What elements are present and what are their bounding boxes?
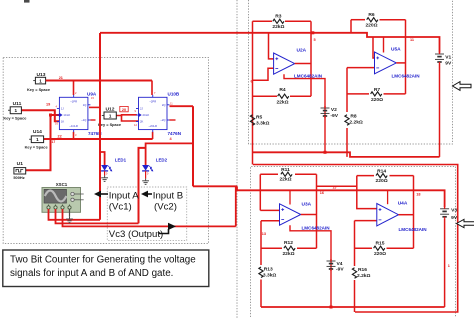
wire U3A power stub [289,190,291,204]
svg-text:Key = Space: Key = Space [98,122,122,127]
wire Vc3 output line [63,209,236,226]
svg-text:1: 1 [448,264,450,268]
svg-text:1CLK: 1CLK [63,113,70,117]
svg-text:21: 21 [59,76,63,80]
svg-text:LMC6482AIN: LMC6482AIN [294,73,323,78]
svg-text:R15: R15 [376,240,385,246]
wire scope ground pin [66,209,73,223]
wire Vc2 signal line into stage [193,186,445,207]
resistor R4 [278,94,289,98]
svg-text:1Q: 1Q [83,103,87,107]
svg-text:17: 17 [52,140,56,144]
wire U5A positive supply [383,37,385,53]
resistor R7 [371,92,382,96]
svg-text:U2A: U2A [297,48,307,54]
svg-text:15: 15 [333,186,337,190]
resistor R6 [367,18,378,22]
svg-text:6: 6 [251,80,253,84]
resistor R11 [281,172,292,176]
wire R4 feedback [253,95,312,97]
op-amp U5A [375,52,397,74]
svg-text:19: 19 [46,103,50,107]
resistor R5 [250,115,254,126]
svg-text:500Hz: 500Hz [13,175,24,180]
svg-text:LMC6482AIN: LMC6482AIN [392,73,421,78]
wire U3A output [301,214,317,216]
resistor R12 [284,246,295,250]
sheet page border (dashed) [236,0,238,318]
svg-text:Input A: Input A [109,190,139,201]
svg-text:3.3kΩ: 3.3kΩ [263,273,277,279]
svg-text:U14: U14 [33,129,42,135]
switch U13 [33,77,48,84]
svg-text:2K: 2K [140,120,143,124]
svg-text:20: 20 [122,108,126,112]
wire net 19 from U11 [21,110,59,121]
wire U3A inverting input [261,221,280,307]
svg-text:~2PR: ~2PR [149,99,156,103]
svg-text:R11: R11 [281,167,290,173]
svg-text:11: 11 [410,38,414,42]
svg-text:R12: R12 [284,240,293,246]
label callout dashed box [107,187,186,240]
svg-text:V4: V4 [337,261,343,267]
switch U12 [102,115,104,117]
arrow Input B [141,191,152,198]
battery V3 [440,207,449,307]
cropped symbol at top-left [24,0,30,3]
svg-text:R4: R4 [279,87,286,93]
svg-text:Two Bit Counter for Generating: Two Bit Counter for Generating the volta… [10,255,196,266]
wire U2A output [295,63,311,65]
op-amp U3A [280,204,301,225]
svg-text:22kΩ: 22kΩ [279,177,291,183]
resistor R13 [259,267,263,278]
svg-text:U13: U13 [37,72,46,78]
wire Vc3 tap riser [235,186,237,226]
svg-text:~1CLR: ~1CLR [69,124,77,128]
svg-text:R13: R13 [264,267,273,273]
wire main signal Vc1 to stage inputs [100,33,440,53]
wire U3A negative supply [290,225,331,307]
oscilloscope XSC1 [42,188,84,213]
svg-text:2.2kΩ: 2.2kΩ [349,119,363,125]
wire R15 feedback [355,247,414,249]
svg-text:3: 3 [104,152,106,156]
flip-flop U9A [57,95,91,132]
wire ground rail top stage [253,151,440,157]
svg-text:1: 1 [39,79,42,84]
svg-text:220Ω: 220Ω [365,23,377,29]
switch U11 [8,109,10,111]
svg-text:U3A: U3A [302,202,312,208]
wire net 22 clear line [44,132,153,139]
svg-text:(Vc1): (Vc1) [109,202,132,213]
svg-text:~1Q: ~1Q [81,118,86,122]
wire R6 feedback loop [351,20,406,94]
ground below LED2 [142,179,149,185]
svg-text:3.3kΩ: 3.3kΩ [256,120,270,126]
svg-text:U12: U12 [106,107,115,113]
svg-text:Vc3 (Output): Vc3 (Output) [109,229,163,240]
svg-text:22kΩ: 22kΩ [276,99,288,105]
svg-text:9V: 9V [451,215,458,221]
top-right dashed box [249,0,453,144]
pin numbers U10B [134,91,173,127]
svg-text:R14: R14 [377,168,386,174]
wire scope channel A [49,209,101,220]
svg-text:U5A: U5A [391,47,401,53]
svg-text:-9V: -9V [336,267,344,273]
op-amp U2A [274,53,295,74]
svg-text:Input B: Input B [153,190,183,201]
wire U4A output [399,214,414,216]
arrow Input A [94,191,108,198]
svg-text:13: 13 [262,232,266,236]
svg-text:18: 18 [416,193,420,197]
svg-text:Key = Space: Key = Space [3,116,27,121]
svg-text:1K: 1K [61,120,64,124]
svg-text:R7: R7 [374,87,381,93]
resistor R16 [352,268,356,279]
svg-text:V3: V3 [451,207,457,213]
svg-text:1: 1 [109,113,112,118]
svg-text:~1PR: ~1PR [70,99,77,103]
wire R12 feedback [261,247,317,249]
svg-text:~2Q: ~2Q [160,118,165,122]
battery V1 [435,52,444,157]
svg-text:U10B: U10B [168,92,180,97]
battery V4 [327,260,336,262]
wire net 20 from U12 [116,115,139,121]
wire R7 feedback [347,93,406,95]
svg-text:16: 16 [320,191,324,195]
switch U14 [29,136,43,143]
svg-text:U11: U11 [13,101,22,107]
svg-text:2.2kΩ: 2.2kΩ [357,273,371,279]
svg-text:-9V: -9V [330,113,338,119]
svg-text:1: 1 [15,108,18,113]
wire net 21 preset line [46,81,152,96]
callout arrow bottom right [457,219,474,227]
svg-text:R5: R5 [256,114,263,120]
svg-text:22kΩ: 22kΩ [282,251,294,257]
wire U2A inverting input [253,68,274,80]
svg-text:R3: R3 [275,14,282,20]
wire U5A inverting input [347,68,375,157]
svg-text:(Vc2): (Vc2) [154,202,177,213]
wire Vc1 vertical from Q1 (node A) [89,33,100,220]
svg-text:9V: 9V [445,60,452,66]
svg-text:signals for input A and B of A: signals for input A and B of AND gate. [10,268,173,279]
svg-text:XSC1: XSC1 [56,182,68,187]
wire U3A non-inverting input [260,209,279,211]
wire Q2 feed (node B) [170,106,194,186]
clock source U1 [14,168,26,174]
svg-text:1: 1 [36,137,39,142]
svg-text:~2CLR: ~2CLR [149,124,157,128]
wire U4A power stub [387,190,389,204]
wire U5A output [396,62,405,64]
svg-text:220Ω: 220Ω [376,178,388,184]
svg-text:R6: R6 [368,12,375,18]
wire stage2 coupling (net 15) [317,176,377,209]
op-amp U4A [377,204,399,226]
wire R3 feedback loop [253,21,312,164]
LED2 [142,165,153,179]
svg-text:V1: V1 [445,54,451,60]
bottom-right dashed box [251,167,456,318]
wire U2A negative supply [284,74,325,152]
svg-text:5: 5 [314,38,316,42]
wire R14 feedback loop [357,176,414,249]
pin numbers U9A [55,91,94,137]
svg-text:220Ω: 220Ω [374,251,386,257]
svg-text:V2: V2 [331,107,337,113]
svg-text:LED1: LED1 [115,157,127,162]
svg-text:2CLK: 2CLK [143,113,150,117]
callout arrow top right [453,82,472,91]
net label 20 highlighted [120,106,128,111]
wire scope channel B [56,209,139,223]
svg-text:R8: R8 [350,114,357,120]
resistor R15 [374,246,385,250]
counter section dashed box [3,58,208,244]
resistor R3 [273,19,284,23]
wire stub Q2bar [170,119,176,121]
wire clock net from U1 [26,114,60,171]
flip-flop U10B [136,95,170,132]
resistor R8 [345,115,349,126]
wire U2A non-inverting input [269,33,274,59]
svg-text:22kΩ: 22kΩ [272,24,284,30]
LED1 [101,165,112,176]
svg-text:2Q: 2Q [162,103,166,107]
junction node 5 [311,31,314,34]
wire LED1 branch [100,152,105,165]
wire U4A inverting input [355,221,377,312]
svg-text:U4A: U4A [398,201,408,207]
svg-text:220Ω: 220Ω [371,97,383,103]
resistor R14 [376,174,387,178]
svg-text:Key = Space: Key = Space [27,87,51,92]
svg-text:U9A: U9A [87,92,97,97]
svg-text:Key = Space: Key = Space [25,144,49,149]
caption text box [3,250,209,287]
svg-text:U1: U1 [17,161,24,167]
wire LED2 branch [139,143,194,223]
svg-text:LMC6482AIN: LMC6482AIN [399,227,428,232]
wire ground rail bottom stage [261,306,445,309]
svg-text:LED2: LED2 [156,157,168,162]
wire R11 feedback loop [260,174,316,248]
svg-text:R16: R16 [358,267,367,273]
wire U5A non-inverting input [373,37,375,58]
arrow Vc3 [159,223,177,234]
wire stub Q1bar [90,119,95,121]
svg-text:22: 22 [58,135,62,139]
ground below LED1 [101,176,108,182]
wire outer common loop [253,165,458,313]
svg-text:7476N: 7476N [168,131,182,136]
battery V2 [321,107,330,109]
svg-text:LMC6482AIN: LMC6482AIN [302,225,331,230]
